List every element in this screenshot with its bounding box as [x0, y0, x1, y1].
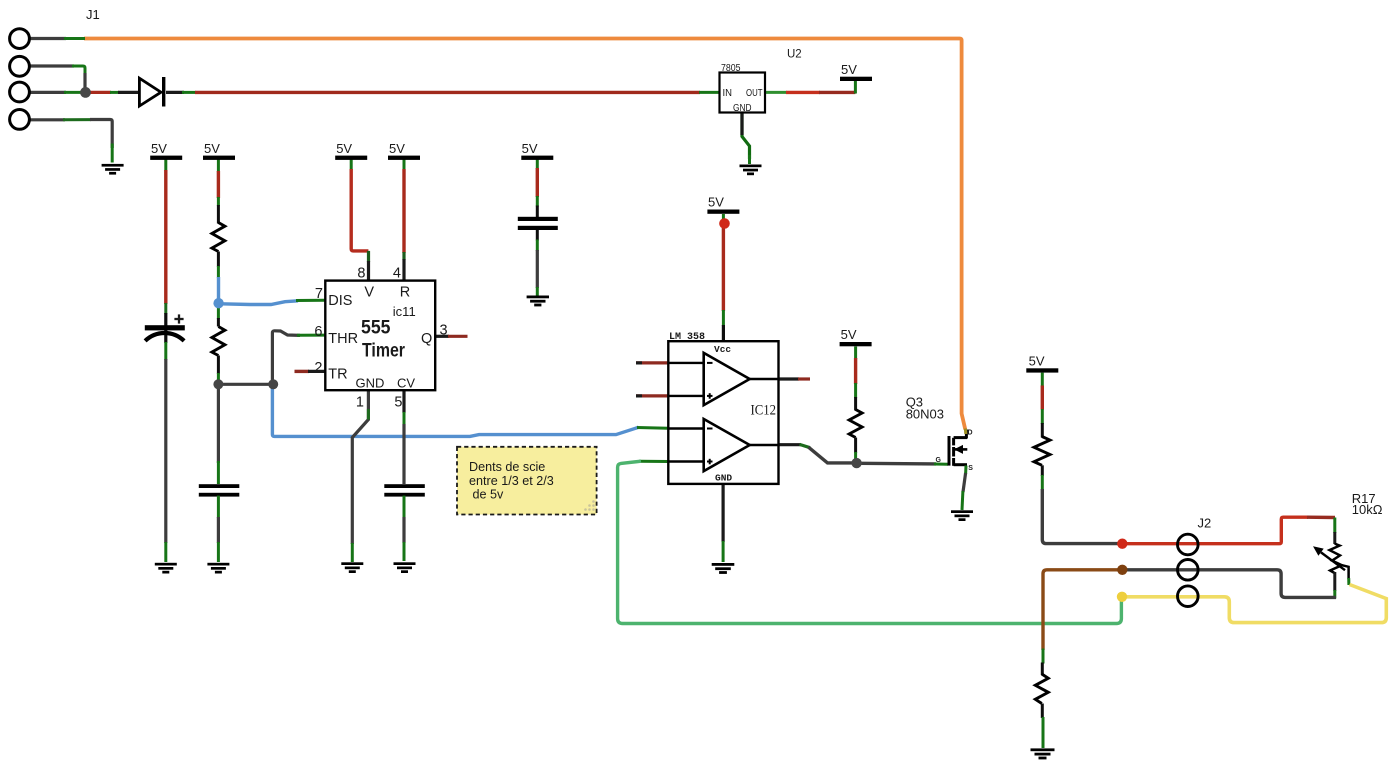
svg-text:IN: IN	[723, 88, 733, 99]
svg-text:7805: 7805	[721, 63, 741, 74]
svg-text:5V: 5V	[841, 62, 857, 77]
svg-text:R: R	[400, 284, 410, 300]
svg-text:ic11: ic11	[393, 304, 416, 319]
svg-text:CV: CV	[397, 376, 415, 391]
svg-text:5V: 5V	[336, 141, 352, 156]
svg-text:Vcc: Vcc	[714, 344, 731, 355]
svg-text:J2: J2	[1198, 516, 1212, 531]
svg-text:DIS: DIS	[328, 293, 352, 309]
svg-text:5V: 5V	[151, 141, 167, 156]
svg-text:J1: J1	[86, 7, 100, 22]
svg-text:5V: 5V	[204, 141, 220, 156]
svg-text:GND: GND	[356, 376, 385, 391]
svg-text:D: D	[968, 429, 973, 436]
svg-text:OUT: OUT	[746, 88, 763, 99]
svg-text:80N03: 80N03	[906, 406, 944, 421]
svg-text:de 5v: de 5v	[473, 488, 505, 502]
svg-text:2: 2	[314, 360, 322, 376]
svg-text:S: S	[968, 465, 973, 472]
svg-text:5V: 5V	[1029, 354, 1045, 369]
svg-text:IC12: IC12	[751, 403, 777, 419]
svg-text:Timer: Timer	[362, 340, 405, 361]
svg-text:TR: TR	[328, 367, 347, 383]
svg-text:Dents de scie: Dents de scie	[469, 460, 545, 474]
svg-text:U2: U2	[787, 49, 802, 61]
svg-text:GND: GND	[733, 103, 752, 114]
svg-text:555: 555	[361, 318, 391, 339]
svg-text:Q: Q	[421, 331, 432, 347]
svg-text:5: 5	[394, 395, 402, 411]
svg-text:GND: GND	[715, 473, 732, 484]
svg-text:5V: 5V	[522, 141, 538, 156]
svg-text:5V: 5V	[841, 327, 857, 342]
svg-text:entre 1/3 et 2/3: entre 1/3 et 2/3	[469, 474, 554, 488]
svg-text:G: G	[936, 457, 942, 464]
svg-text:3: 3	[440, 323, 448, 339]
svg-text:5V: 5V	[708, 195, 724, 210]
svg-text:4: 4	[393, 266, 401, 282]
svg-text:7: 7	[315, 286, 323, 302]
svg-text:V: V	[364, 284, 374, 300]
svg-text:1: 1	[356, 395, 364, 411]
svg-text:8: 8	[357, 266, 365, 282]
svg-text:LM 358: LM 358	[669, 332, 705, 343]
svg-text:5V: 5V	[389, 141, 405, 156]
svg-text:10kΩ: 10kΩ	[1352, 502, 1383, 517]
svg-text:THR: THR	[328, 331, 358, 347]
svg-text:6: 6	[314, 324, 322, 340]
